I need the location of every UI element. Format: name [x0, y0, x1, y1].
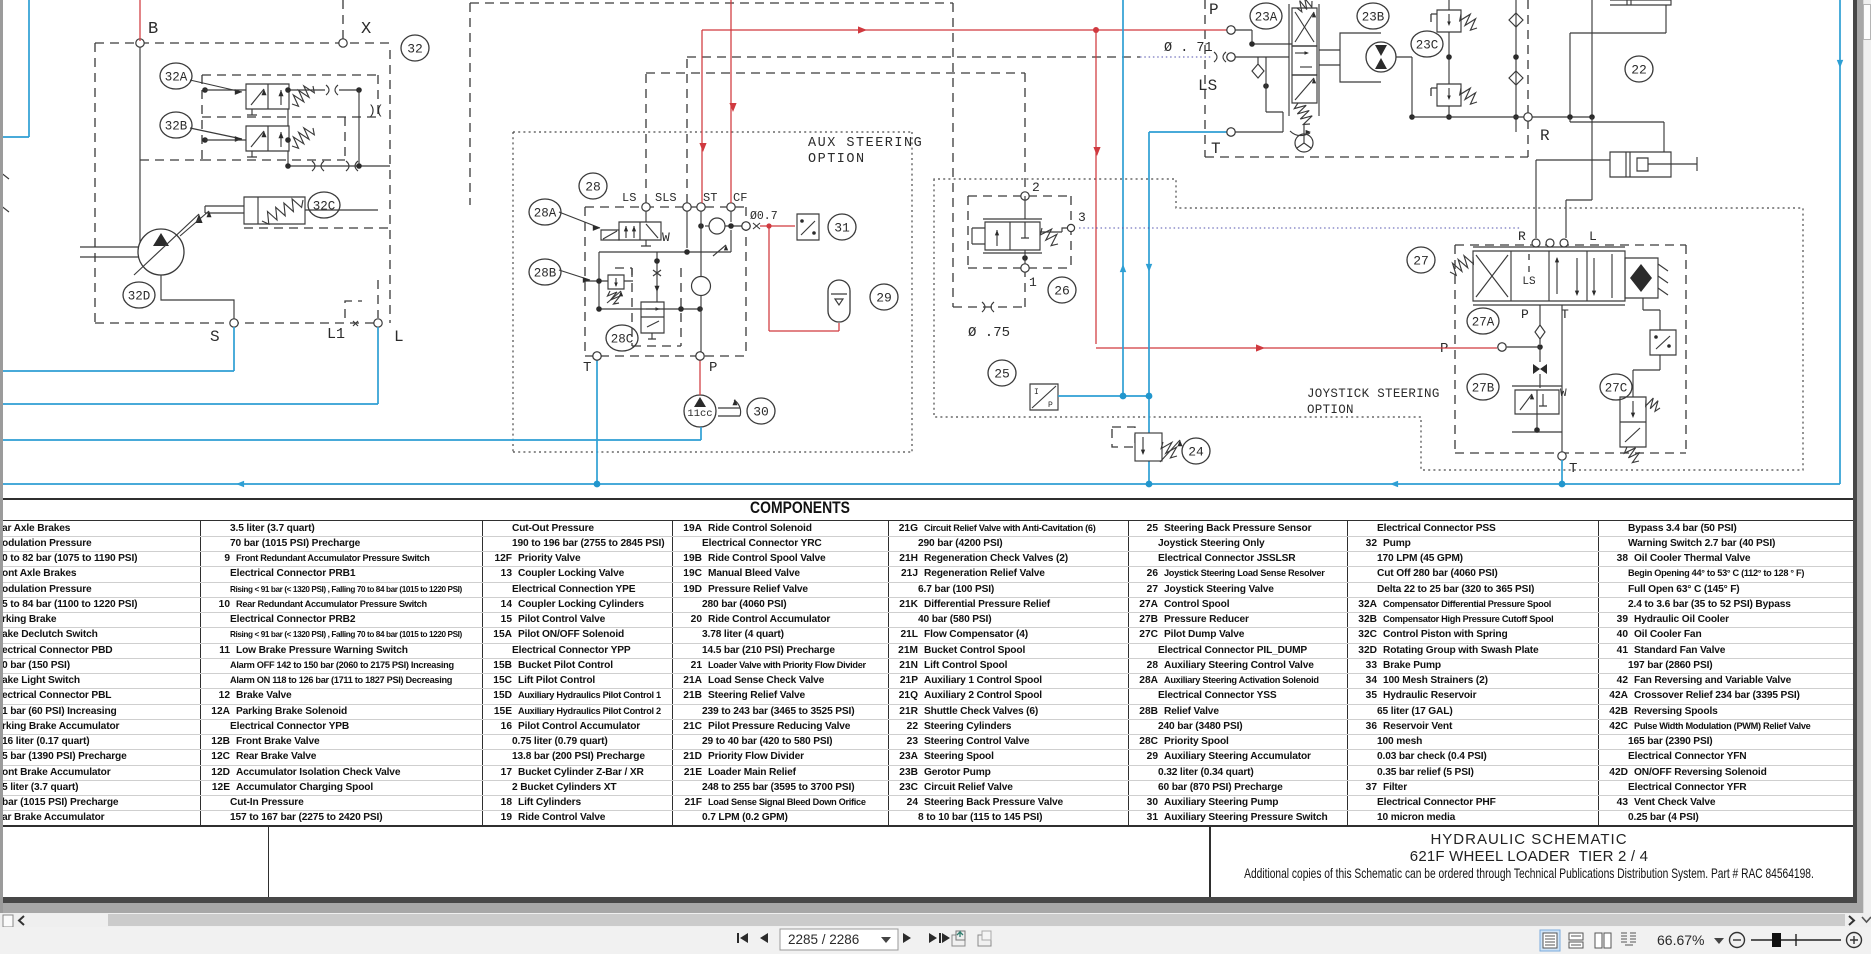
svg-text:66.67%: 66.67%: [1657, 932, 1704, 948]
svg-text:2285 / 2286: 2285 / 2286: [788, 932, 859, 947]
